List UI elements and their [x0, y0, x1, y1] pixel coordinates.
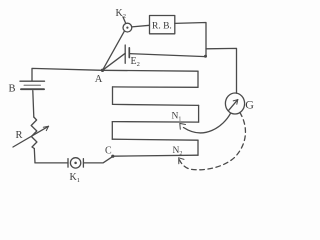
svg-text:N1: N1 — [172, 112, 182, 123]
wire left vertical rows 2-3 — [112, 87, 114, 105]
wire: junction to galvanometer — [206, 48, 237, 93]
svg-text:A: A — [95, 74, 103, 85]
wire: bottom left to key K1 — [35, 162, 68, 164]
svg-text:K1: K1 — [70, 172, 80, 184]
wire: key K2 to resistance box — [132, 25, 150, 27]
potentiometer wire row 5 — [112, 139, 198, 140]
jockey wire (solid) from G to N1 — [180, 113, 231, 133]
svg-text:N2: N2 — [173, 146, 183, 157]
wire: battery E2 to junction — [129, 54, 205, 57]
svg-text:R. B.: R. B. — [152, 22, 172, 32]
wire right vertical rows 5-6 — [197, 140, 199, 155]
node C — [111, 155, 114, 158]
svg-text:E2: E2 — [131, 56, 140, 68]
wire right vertical rows 1-2 — [197, 71, 199, 87]
potentiometer wire row 2 — [113, 86, 199, 88]
key K1 — [68, 158, 83, 168]
wire: node A to key K2 — [103, 31, 125, 70]
wire: key K1 to node C — [83, 156, 112, 163]
wire left vertical rows 4-5 — [111, 122, 113, 140]
battery B — [20, 81, 45, 89]
key K2 — [123, 17, 132, 32]
wire: rheostat to bottom-left corner — [33, 149, 36, 163]
wire: resistance box to right junction — [175, 23, 206, 57]
galvanometer G — [225, 93, 244, 114]
wire top-left: battery B to node A — [32, 68, 103, 80]
potentiometer wire row 4 — [112, 121, 198, 124]
wire: battery B to rheostat — [33, 91, 34, 117]
svg-text:K2: K2 — [116, 8, 126, 20]
svg-text:C: C — [105, 146, 112, 157]
resistance box R.B. — [150, 16, 175, 34]
svg-text:G: G — [245, 98, 254, 112]
wire right vertical rows 3-4 — [198, 105, 200, 122]
svg-text:R: R — [16, 130, 23, 141]
potentiometer wire row 6 (to node C) — [113, 155, 198, 156]
potentiometer wire row 1 (A to right) — [103, 69, 199, 72]
rheostat R — [13, 117, 49, 149]
junction node (E2 / RB / G) — [204, 55, 207, 58]
jockey wire (dashed) alternate position to N2 — [179, 112, 246, 169]
svg-text:B: B — [9, 84, 16, 95]
potentiometer wire row 3 — [113, 104, 199, 105]
node A — [101, 69, 104, 72]
wire: node A to battery E2 — [103, 53, 126, 70]
battery E2 — [125, 45, 129, 63]
